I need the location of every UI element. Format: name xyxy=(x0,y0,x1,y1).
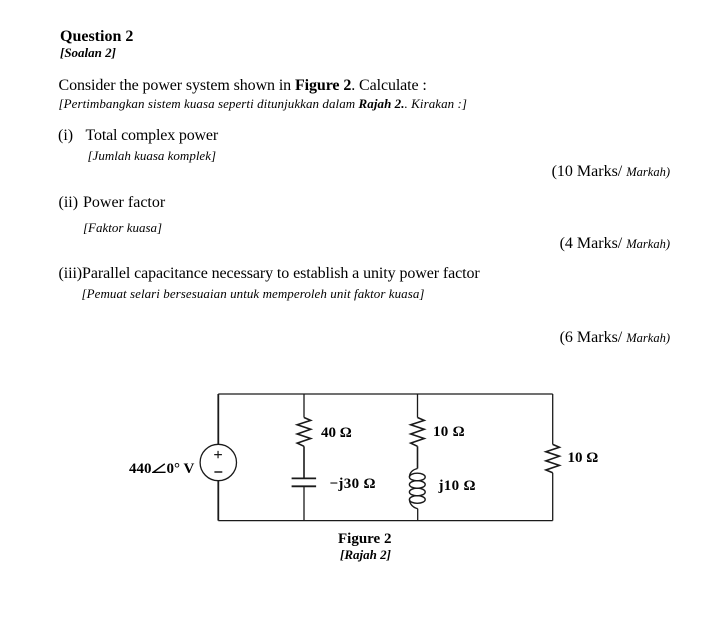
wire left upper (source top lead) xyxy=(217,394,219,444)
wire bottom xyxy=(218,520,552,522)
resistor 10Ω (right) zigzag xyxy=(546,444,560,472)
wire right branch lower xyxy=(552,473,554,521)
caption Figure 2 xyxy=(338,532,391,547)
wire stub branch 1 top xyxy=(303,394,305,418)
plus sign of source xyxy=(214,451,222,458)
wire stub branch 2 top xyxy=(417,394,419,418)
capacitor -j30Ω top plate xyxy=(292,477,317,479)
minus sign of source xyxy=(214,471,222,473)
resistor 40Ω zigzag xyxy=(297,418,311,447)
wire below capacitor xyxy=(303,486,305,520)
label -j30 Ω xyxy=(330,477,376,492)
inductor j10Ω coil xyxy=(409,469,425,509)
wire top xyxy=(218,393,552,395)
capacitor -j30Ω bottom plate xyxy=(292,485,317,487)
caption [Rajah 2] xyxy=(340,548,391,561)
wire between 10Ω and inductor xyxy=(417,446,419,468)
label 10 Ω (middle) xyxy=(433,425,465,440)
voltage source VS 440∠0° V xyxy=(200,444,236,480)
label j10 Ω xyxy=(439,479,476,494)
resistor 10Ω (middle) zigzag xyxy=(411,418,425,447)
label 40 Ω xyxy=(321,426,352,441)
wire left lower (source bottom lead) xyxy=(217,481,219,521)
wire below inductor xyxy=(417,509,419,521)
label 440∠0° V xyxy=(129,462,194,477)
wire right branch upper xyxy=(552,394,554,444)
wire between 40Ω and capacitor xyxy=(303,446,305,478)
label 10 Ω (right) xyxy=(568,451,599,466)
